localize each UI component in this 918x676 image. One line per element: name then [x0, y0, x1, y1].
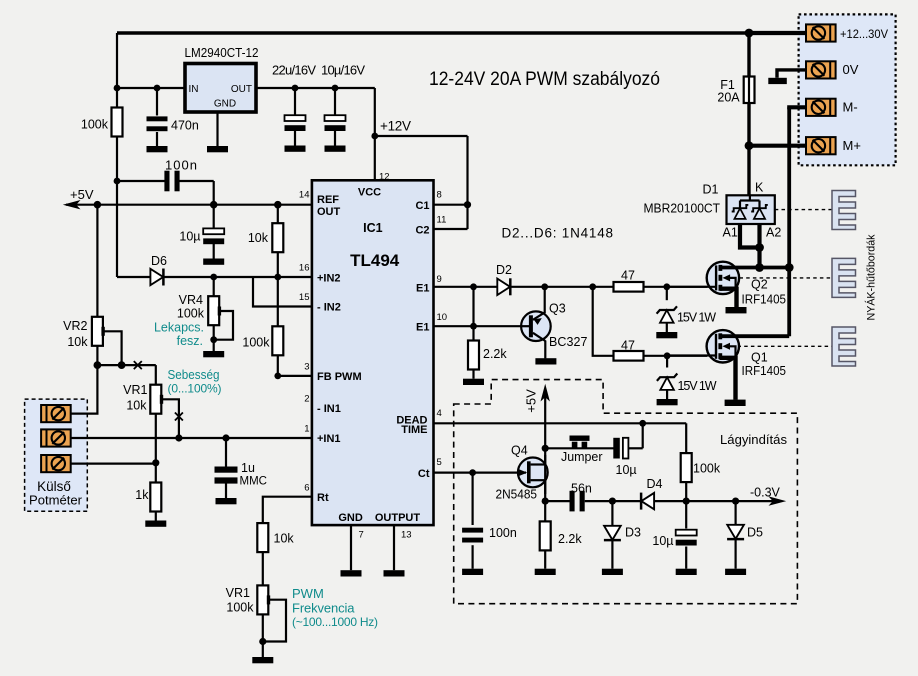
- svg-text:14: 14: [299, 189, 310, 200]
- svg-text:OUT: OUT: [317, 206, 341, 218]
- svg-text:Ct: Ct: [418, 468, 430, 480]
- svg-text:K: K: [755, 181, 764, 195]
- svg-text:C1: C1: [415, 200, 429, 212]
- svg-text:5: 5: [437, 457, 442, 468]
- svg-text:VCC: VCC: [358, 187, 381, 199]
- svg-text:D3: D3: [625, 526, 641, 540]
- svg-text:+12...30V: +12...30V: [840, 29, 888, 41]
- svg-text:IN: IN: [189, 84, 199, 95]
- svg-text:10µ: 10µ: [652, 534, 673, 548]
- svg-text:100k: 100k: [693, 462, 721, 476]
- svg-text:10: 10: [437, 312, 448, 323]
- svg-text:Lágyindítás: Lágyindítás: [720, 432, 787, 447]
- svg-text:IC1: IC1: [363, 221, 383, 235]
- svg-text:56n: 56n: [571, 482, 592, 496]
- svg-text:1u: 1u: [241, 461, 255, 475]
- svg-text:470n: 470n: [171, 119, 199, 133]
- svg-text:VR1: VR1: [123, 383, 147, 397]
- svg-text:Sebesség: Sebesség: [168, 368, 220, 382]
- svg-text:A2: A2: [766, 226, 781, 240]
- svg-text:Q3: Q3: [549, 302, 566, 316]
- svg-text:- IN1: - IN1: [317, 403, 341, 415]
- svg-text:2: 2: [304, 393, 309, 404]
- svg-text:20A: 20A: [717, 91, 740, 105]
- svg-text:+5V: +5V: [523, 389, 538, 413]
- svg-text:100k: 100k: [226, 601, 254, 615]
- svg-text:1k: 1k: [135, 488, 149, 502]
- svg-text:IRF1405: IRF1405: [742, 364, 787, 378]
- svg-text:8: 8: [437, 189, 442, 200]
- svg-text:D2...D6: 1N4148: D2...D6: 1N4148: [502, 226, 614, 241]
- svg-text:10k: 10k: [274, 532, 295, 546]
- svg-text:10µ/16V: 10µ/16V: [321, 63, 365, 78]
- svg-text:15: 15: [299, 292, 310, 303]
- svg-text:C2: C2: [415, 225, 429, 237]
- svg-text:VR4: VR4: [179, 293, 203, 307]
- svg-text:Frekvencia: Frekvencia: [292, 601, 355, 616]
- svg-text:2N5485: 2N5485: [496, 488, 538, 502]
- svg-text:Rt: Rt: [317, 492, 329, 504]
- svg-text:100n: 100n: [165, 158, 197, 173]
- svg-text:GND: GND: [338, 512, 363, 524]
- svg-text:MBR20100CT: MBR20100CT: [644, 202, 721, 216]
- svg-text:D4: D4: [647, 477, 663, 491]
- svg-text:9: 9: [437, 274, 442, 285]
- svg-text:BC327: BC327: [549, 335, 588, 349]
- svg-text:MMC: MMC: [240, 476, 267, 488]
- svg-text:1: 1: [304, 423, 309, 434]
- svg-text:+5V: +5V: [70, 187, 94, 202]
- svg-text:16: 16: [299, 262, 310, 273]
- svg-text:22u/16V: 22u/16V: [272, 63, 316, 78]
- svg-text:100n: 100n: [489, 526, 517, 540]
- svg-text:FB PWM: FB PWM: [317, 371, 362, 383]
- svg-text:+IN1: +IN1: [317, 433, 341, 445]
- svg-text:VR1: VR1: [226, 586, 250, 600]
- svg-text:GND: GND: [214, 99, 236, 110]
- svg-text:7: 7: [359, 530, 364, 541]
- svg-text:LM2940CT-12: LM2940CT-12: [185, 46, 259, 60]
- svg-text:100k: 100k: [177, 307, 205, 321]
- svg-text:Potméter: Potméter: [29, 493, 83, 508]
- svg-text:+IN2: +IN2: [317, 273, 341, 285]
- svg-text:10µ: 10µ: [616, 463, 637, 477]
- svg-text:2.2k: 2.2k: [483, 347, 507, 361]
- svg-text:47: 47: [621, 339, 635, 353]
- svg-text:2.2k: 2.2k: [558, 532, 582, 546]
- svg-text:+12V: +12V: [380, 119, 411, 134]
- svg-text:Q2: Q2: [751, 278, 768, 292]
- svg-text:-0.3V: -0.3V: [750, 486, 781, 500]
- svg-text:OUT: OUT: [231, 84, 252, 95]
- svg-text:D5: D5: [747, 526, 763, 540]
- svg-text:13: 13: [401, 530, 412, 541]
- svg-text:TL494: TL494: [350, 251, 400, 270]
- svg-text:15V 1W: 15V 1W: [678, 379, 717, 393]
- svg-text:Q1: Q1: [751, 351, 768, 365]
- svg-text:Q4: Q4: [511, 444, 528, 458]
- svg-text:REF: REF: [317, 194, 339, 206]
- svg-text:D6: D6: [151, 254, 167, 268]
- svg-text:10µ: 10µ: [179, 230, 200, 244]
- svg-text:3: 3: [304, 361, 309, 372]
- svg-text:OUTPUT: OUTPUT: [375, 512, 421, 524]
- svg-text:47: 47: [621, 269, 635, 283]
- svg-text:(~100...1000 Hz): (~100...1000 Hz): [292, 615, 378, 629]
- svg-text:M+: M+: [843, 138, 861, 153]
- svg-text:12: 12: [379, 172, 390, 183]
- svg-text:12-24V 20A PWM szabályozó: 12-24V 20A PWM szabályozó: [429, 69, 660, 90]
- svg-text:0V: 0V: [843, 62, 859, 77]
- svg-text:10k: 10k: [67, 335, 88, 349]
- svg-text:D1: D1: [703, 183, 719, 197]
- svg-text:NYÁK-hűtőbordák: NYÁK-hűtőbordák: [865, 234, 878, 320]
- svg-text:VR2: VR2: [63, 319, 87, 333]
- svg-text:100k: 100k: [81, 118, 109, 132]
- svg-text:Lekapcs.: Lekapcs.: [154, 321, 204, 335]
- svg-text:10k: 10k: [126, 399, 147, 413]
- svg-text:E1: E1: [416, 282, 429, 294]
- svg-text:Jumper: Jumper: [561, 449, 603, 464]
- svg-text:(0...100%): (0...100%): [168, 382, 222, 396]
- svg-text:TIME: TIME: [401, 424, 427, 436]
- svg-text:A1: A1: [723, 226, 738, 240]
- svg-text:6: 6: [304, 482, 309, 493]
- svg-text:15V 1W: 15V 1W: [677, 311, 716, 325]
- svg-text:E1: E1: [416, 322, 429, 334]
- svg-text:IRF1405: IRF1405: [742, 293, 787, 307]
- svg-text:10k: 10k: [248, 231, 269, 245]
- svg-text:fesz.: fesz.: [177, 334, 203, 348]
- svg-text:100k: 100k: [242, 336, 270, 350]
- svg-text:M-: M-: [843, 100, 858, 115]
- svg-text:11: 11: [437, 215, 447, 226]
- svg-text:- IN2: - IN2: [317, 302, 341, 314]
- svg-text:D2: D2: [496, 263, 512, 277]
- svg-text:PWM: PWM: [292, 586, 324, 601]
- svg-text:4: 4: [437, 408, 442, 419]
